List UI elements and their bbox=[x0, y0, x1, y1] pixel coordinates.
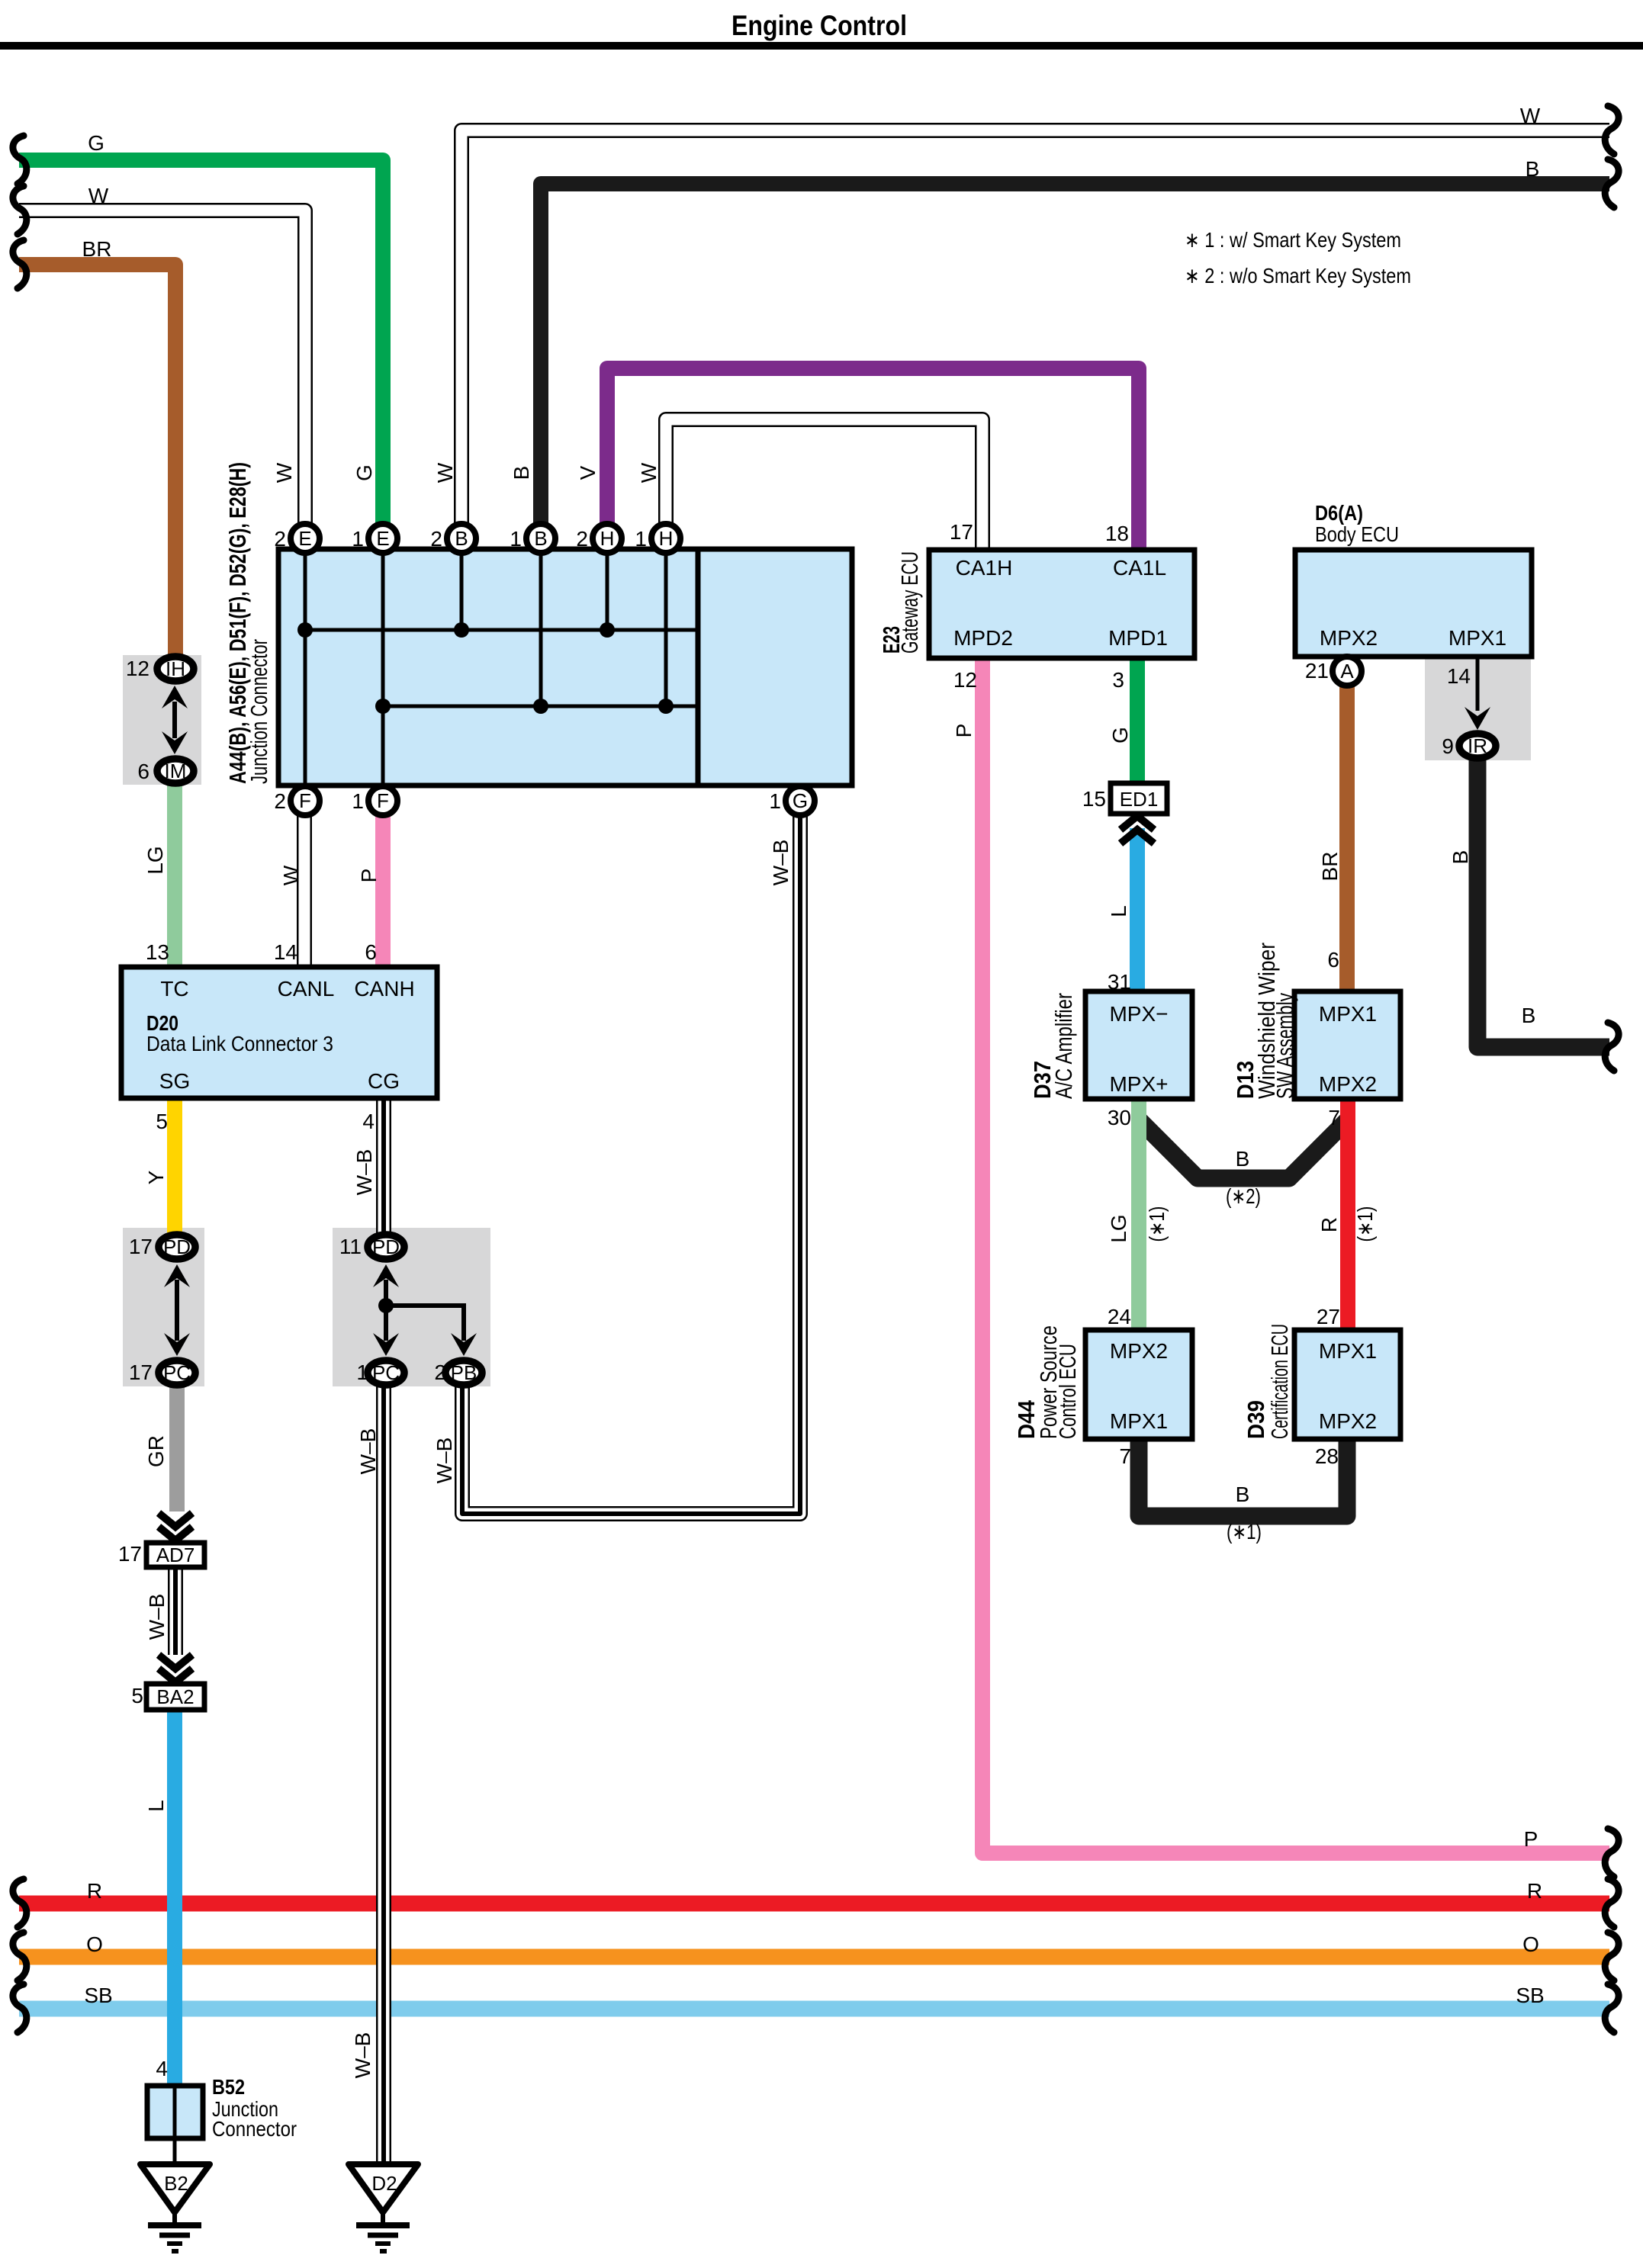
svg-text:H: H bbox=[659, 527, 674, 550]
ground B2 bbox=[140, 2164, 210, 2212]
svg-text:9: 9 bbox=[1442, 734, 1454, 758]
wire P gateway MPD2 to right trunk bbox=[982, 654, 1609, 1853]
D39 certification ECU box bbox=[1294, 1330, 1400, 1439]
svg-text:GR: GR bbox=[144, 1435, 168, 1467]
svg-text:MPX1: MPX1 bbox=[1319, 1339, 1377, 1363]
svg-text:2: 2 bbox=[434, 1360, 446, 1384]
svg-text:R: R bbox=[1527, 1879, 1542, 1903]
svg-text:W–B: W–B bbox=[432, 1438, 456, 1484]
svg-text:6: 6 bbox=[137, 760, 150, 783]
svg-text:27: 27 bbox=[1317, 1305, 1340, 1328]
svg-text:Connector: Connector bbox=[212, 2117, 297, 2141]
svg-text:17: 17 bbox=[129, 1360, 153, 1384]
svg-text:18: 18 bbox=[1105, 522, 1129, 545]
svg-text:5: 5 bbox=[156, 1110, 168, 1133]
svg-text:F: F bbox=[377, 789, 389, 812]
svg-text:P: P bbox=[1524, 1827, 1539, 1851]
svg-text:4: 4 bbox=[156, 2057, 168, 2080]
svg-text:Body ECU: Body ECU bbox=[1315, 522, 1399, 546]
svg-text:R: R bbox=[87, 1879, 102, 1903]
svg-text:MPD2: MPD2 bbox=[953, 626, 1013, 650]
wire W-B PB to junction 1G bbox=[462, 804, 800, 1514]
BA2 connector box bbox=[146, 1684, 204, 1710]
svg-text:D2: D2 bbox=[371, 2172, 397, 2195]
svg-text:G: G bbox=[793, 789, 808, 812]
svg-text:17: 17 bbox=[129, 1235, 153, 1258]
wire R D13 MPX2 to D39 MPX1 bbox=[1340, 1095, 1355, 1335]
wire body MPX1 pin14 arrow to IR bbox=[1476, 657, 1480, 711]
svg-text:PC: PC bbox=[163, 1361, 191, 1384]
svg-text:∗ 1 : w/ Smart Key System: ∗ 1 : w/ Smart Key System bbox=[1185, 228, 1401, 252]
wire W top right to junction 2B bbox=[461, 130, 1609, 528]
junction internal bus lower bbox=[383, 705, 698, 708]
ground D2 bbox=[349, 2164, 418, 2212]
svg-text:(∗1): (∗1) bbox=[1145, 1206, 1169, 1242]
svg-text:E: E bbox=[298, 527, 311, 550]
svg-text:MPX1: MPX1 bbox=[1448, 626, 1506, 650]
svg-text:O: O bbox=[86, 1932, 103, 1956]
svg-text:(∗2): (∗2) bbox=[1226, 1184, 1261, 1208]
svg-text:5: 5 bbox=[131, 1684, 143, 1707]
svg-text:2: 2 bbox=[430, 527, 442, 551]
svg-text:W–B: W–B bbox=[351, 2032, 375, 2079]
svg-text:Engine Control: Engine Control bbox=[731, 10, 907, 41]
svg-text:IR: IR bbox=[1468, 734, 1487, 757]
junction top circles bbox=[291, 524, 320, 553]
svg-text:L: L bbox=[1107, 905, 1130, 917]
junction internal verticals bbox=[304, 551, 307, 785]
svg-text:CANH: CANH bbox=[354, 977, 414, 1001]
gray box around IH/IM connectors bbox=[123, 655, 201, 785]
svg-text:Control ECU: Control ECU bbox=[1054, 1344, 1081, 1439]
wire W junction 2F to D20 CANL bbox=[297, 804, 312, 965]
svg-text:H: H bbox=[600, 527, 615, 550]
svg-text:15: 15 bbox=[1082, 787, 1106, 811]
svg-text:BA2: BA2 bbox=[156, 1685, 194, 1708]
svg-text:BR: BR bbox=[82, 237, 112, 261]
svg-text:MPX2: MPX2 bbox=[1110, 1339, 1168, 1363]
svg-text:B: B bbox=[534, 527, 547, 550]
wire LG IM to D20 TC bbox=[167, 784, 182, 965]
body ECU node A bbox=[1333, 657, 1362, 686]
connector PD right bbox=[368, 1235, 404, 1259]
svg-text:13: 13 bbox=[146, 940, 169, 964]
svg-text:MPX2: MPX2 bbox=[1320, 626, 1378, 650]
svg-text:BR: BR bbox=[1318, 852, 1342, 882]
svg-text:Gateway ECU: Gateway ECU bbox=[896, 551, 923, 654]
chevrons above BA2 bbox=[159, 1655, 192, 1669]
connector PB bbox=[445, 1360, 482, 1385]
svg-text:B52: B52 bbox=[212, 2075, 245, 2099]
svg-text:CANL: CANL bbox=[278, 977, 335, 1001]
svg-text:17: 17 bbox=[118, 1542, 142, 1566]
connector PC left bbox=[159, 1360, 195, 1385]
gateway ECU box E23 bbox=[929, 550, 1194, 658]
wire W-B D20 CG to right PD bbox=[376, 1095, 391, 1234]
svg-text:SG: SG bbox=[159, 1069, 190, 1093]
svg-text:PB: PB bbox=[451, 1361, 477, 1384]
svg-text:B: B bbox=[1522, 1004, 1536, 1027]
svg-text:L: L bbox=[144, 1800, 168, 1812]
svg-text:7: 7 bbox=[1119, 1444, 1131, 1468]
wire Y D20 SG to PD bbox=[167, 1095, 182, 1234]
svg-text:CA1L: CA1L bbox=[1113, 556, 1166, 580]
svg-text:1: 1 bbox=[769, 789, 781, 813]
svg-text:G: G bbox=[352, 464, 376, 481]
AD7 connector box bbox=[146, 1543, 204, 1567]
svg-text:1: 1 bbox=[356, 1360, 368, 1384]
connector IM bbox=[157, 759, 194, 783]
wire BR left to IH bbox=[19, 265, 175, 662]
svg-text:A: A bbox=[1340, 660, 1354, 683]
svg-text:1: 1 bbox=[635, 527, 647, 551]
svg-text:W: W bbox=[272, 462, 296, 483]
wire W left to junction 2E bbox=[19, 210, 305, 528]
svg-text:B: B bbox=[455, 527, 468, 550]
wire break squiggles left bbox=[13, 136, 27, 184]
svg-text:SW Assembly: SW Assembly bbox=[1272, 993, 1298, 1099]
svg-text:A/C Amplifier: A/C Amplifier bbox=[1050, 993, 1077, 1099]
svg-text:PC: PC bbox=[372, 1361, 400, 1384]
wire GR PC to AD7 bbox=[169, 1385, 185, 1511]
svg-text:CA1H: CA1H bbox=[956, 556, 1013, 580]
svg-text:12: 12 bbox=[953, 668, 977, 692]
wire W-B right PC to D2 ground bbox=[376, 1385, 391, 2170]
svg-text:Y: Y bbox=[144, 1170, 168, 1184]
svg-text:2: 2 bbox=[274, 789, 286, 813]
svg-text:(∗1): (∗1) bbox=[1353, 1206, 1377, 1242]
svg-text:F: F bbox=[299, 789, 311, 812]
svg-text:W: W bbox=[1520, 104, 1541, 127]
svg-text:ED1: ED1 bbox=[1120, 788, 1159, 811]
wire B52 to B2 ground bbox=[173, 2138, 177, 2167]
svg-text:IM: IM bbox=[165, 760, 187, 782]
right PD/PC/PB twist arrows bbox=[384, 1280, 388, 1341]
svg-text:P: P bbox=[952, 724, 976, 738]
body ECU box D6(A) bbox=[1295, 550, 1532, 657]
svg-text:2: 2 bbox=[576, 527, 588, 551]
svg-text:14: 14 bbox=[1447, 664, 1471, 688]
D13 windshield wiper box bbox=[1294, 991, 1400, 1099]
wire O trunk bbox=[19, 1949, 1609, 1965]
svg-text:B: B bbox=[1448, 850, 1472, 865]
wire L BA2 to B52 bbox=[167, 1708, 182, 2090]
svg-text:6: 6 bbox=[1327, 948, 1339, 972]
ED1 connector box bbox=[1111, 783, 1167, 814]
junction internal bus upper bbox=[305, 628, 698, 632]
svg-text:R: R bbox=[1317, 1217, 1341, 1232]
svg-text:PD: PD bbox=[163, 1235, 191, 1258]
junction block divider bbox=[696, 549, 701, 785]
wire B (*2) between D37 pin30 and D13 pin7 bbox=[1139, 1120, 1348, 1178]
svg-text:TC: TC bbox=[160, 977, 188, 1001]
wire L ED1 to D37 MPX- bbox=[1130, 828, 1145, 995]
svg-text:21: 21 bbox=[1305, 659, 1329, 683]
svg-text:MPX+: MPX+ bbox=[1109, 1072, 1168, 1096]
svg-text:G: G bbox=[88, 131, 104, 155]
svg-text:W: W bbox=[637, 462, 661, 483]
svg-text:MPX−: MPX− bbox=[1109, 1002, 1168, 1026]
connector IH bbox=[157, 657, 194, 681]
svg-text:MPD1: MPD1 bbox=[1108, 626, 1168, 650]
svg-text:D39: D39 bbox=[1243, 1400, 1269, 1439]
wire W junction 1H to gateway CA1H bbox=[666, 419, 982, 557]
svg-text:G: G bbox=[1108, 727, 1132, 744]
svg-text:W–B: W–B bbox=[769, 840, 793, 886]
svg-text:14: 14 bbox=[274, 940, 297, 964]
svg-text:W: W bbox=[279, 865, 303, 885]
svg-text:B: B bbox=[1526, 157, 1540, 181]
svg-text:CG: CG bbox=[368, 1069, 400, 1093]
svg-text:E: E bbox=[376, 527, 389, 550]
gray box around left PD/PC connectors bbox=[123, 1228, 204, 1386]
IH/IM twist arrows bbox=[172, 702, 177, 738]
svg-text:MPX2: MPX2 bbox=[1319, 1409, 1377, 1433]
svg-text:Junction Connector: Junction Connector bbox=[246, 639, 272, 784]
svg-text:MPX1: MPX1 bbox=[1319, 1002, 1377, 1026]
svg-text:4: 4 bbox=[362, 1110, 375, 1133]
svg-text:1: 1 bbox=[352, 527, 364, 551]
svg-text:D6(A): D6(A) bbox=[1315, 501, 1363, 525]
svg-text:SB: SB bbox=[84, 1984, 112, 2007]
svg-text:B: B bbox=[1236, 1483, 1250, 1506]
svg-text:30: 30 bbox=[1108, 1106, 1131, 1129]
D37 A/C amplifier box bbox=[1085, 991, 1192, 1099]
svg-text:B2: B2 bbox=[164, 2172, 188, 2195]
svg-text:2: 2 bbox=[274, 527, 286, 551]
wire LG D37 MPX+ to D44 MPX2 bbox=[1131, 1095, 1146, 1335]
svg-text:MPX2: MPX2 bbox=[1319, 1072, 1377, 1096]
B52 junction connector box bbox=[147, 2086, 203, 2138]
connector IR bbox=[1459, 734, 1496, 758]
svg-text:B: B bbox=[510, 466, 533, 480]
svg-text:31: 31 bbox=[1108, 970, 1131, 994]
svg-text:W–B: W–B bbox=[356, 1428, 380, 1475]
svg-text:W–B: W–B bbox=[145, 1594, 169, 1640]
svg-text:1: 1 bbox=[352, 789, 364, 813]
wire R trunk bbox=[19, 1896, 1609, 1912]
gray box around right PD/PC/PB connectors bbox=[333, 1228, 490, 1386]
svg-text:O: O bbox=[1522, 1932, 1539, 1956]
D20 data link connector box bbox=[121, 967, 437, 1098]
svg-text:W: W bbox=[88, 184, 109, 207]
junction bus dots bbox=[297, 622, 313, 638]
junction connector block A44(B), A56(E), D51(F), D52(G), E28(H) bbox=[278, 549, 852, 785]
svg-text:Certification ECU: Certification ECU bbox=[1266, 1324, 1293, 1439]
svg-text:17: 17 bbox=[950, 520, 973, 544]
svg-text:Data Link Connector 3: Data Link Connector 3 bbox=[146, 1032, 333, 1055]
wire V junction 2H to gateway CA1L bbox=[607, 368, 1139, 557]
wire G left to junction 1E bbox=[19, 160, 383, 528]
connector PD left bbox=[159, 1235, 195, 1259]
svg-text:MPX1: MPX1 bbox=[1110, 1409, 1168, 1433]
svg-text:B: B bbox=[1236, 1147, 1250, 1171]
wire B IR to right break bbox=[1477, 758, 1609, 1047]
connector PC right bbox=[368, 1360, 404, 1385]
left PD/PC twist arrows bbox=[175, 1280, 179, 1341]
svg-text:W: W bbox=[433, 462, 457, 483]
gray box around IR connector bbox=[1425, 657, 1531, 760]
svg-text:7: 7 bbox=[1328, 1106, 1340, 1129]
wire SB trunk bbox=[19, 2001, 1609, 2017]
wire B (*1) D44 MPX1 to D39 MPX2 bbox=[1139, 1435, 1347, 1516]
wire W-B AD7 to BA2 bbox=[168, 1566, 183, 1655]
svg-text:12: 12 bbox=[126, 657, 150, 680]
D44 power source control box bbox=[1085, 1330, 1192, 1439]
svg-text:LG: LG bbox=[143, 846, 167, 874]
svg-text:AD7: AD7 bbox=[156, 1544, 195, 1566]
svg-text:28: 28 bbox=[1315, 1444, 1339, 1468]
svg-text:W–B: W–B bbox=[352, 1149, 376, 1196]
svg-text:1: 1 bbox=[510, 527, 522, 551]
svg-text:(∗1): (∗1) bbox=[1227, 1520, 1262, 1544]
wire G gateway MPD1 to ED1 bbox=[1130, 654, 1145, 785]
svg-text:V: V bbox=[576, 465, 600, 480]
svg-text:∗ 2 : w/o Smart Key System: ∗ 2 : w/o Smart Key System bbox=[1185, 264, 1411, 288]
svg-text:11: 11 bbox=[339, 1235, 362, 1258]
svg-text:24: 24 bbox=[1108, 1305, 1131, 1328]
chevrons below ED1 bbox=[1121, 816, 1154, 830]
wire B top right to junction 1B bbox=[541, 184, 1609, 528]
svg-text:LG: LG bbox=[1107, 1214, 1130, 1242]
svg-text:P: P bbox=[357, 869, 381, 883]
wire BR body ECU A to D13 MPX1 bbox=[1339, 683, 1355, 995]
svg-text:PD: PD bbox=[372, 1235, 400, 1258]
junction bottom circles bbox=[291, 786, 320, 815]
title underline rule bbox=[0, 42, 1643, 50]
svg-text:IH: IH bbox=[166, 657, 185, 680]
chevrons above AD7 bbox=[159, 1513, 192, 1527]
svg-text:6: 6 bbox=[365, 940, 377, 964]
svg-text:SB: SB bbox=[1516, 1984, 1544, 2007]
wire P junction 1F to D20 CANH bbox=[375, 804, 391, 965]
wire break squiggles right bbox=[1605, 106, 1619, 154]
svg-text:3: 3 bbox=[1112, 668, 1124, 692]
